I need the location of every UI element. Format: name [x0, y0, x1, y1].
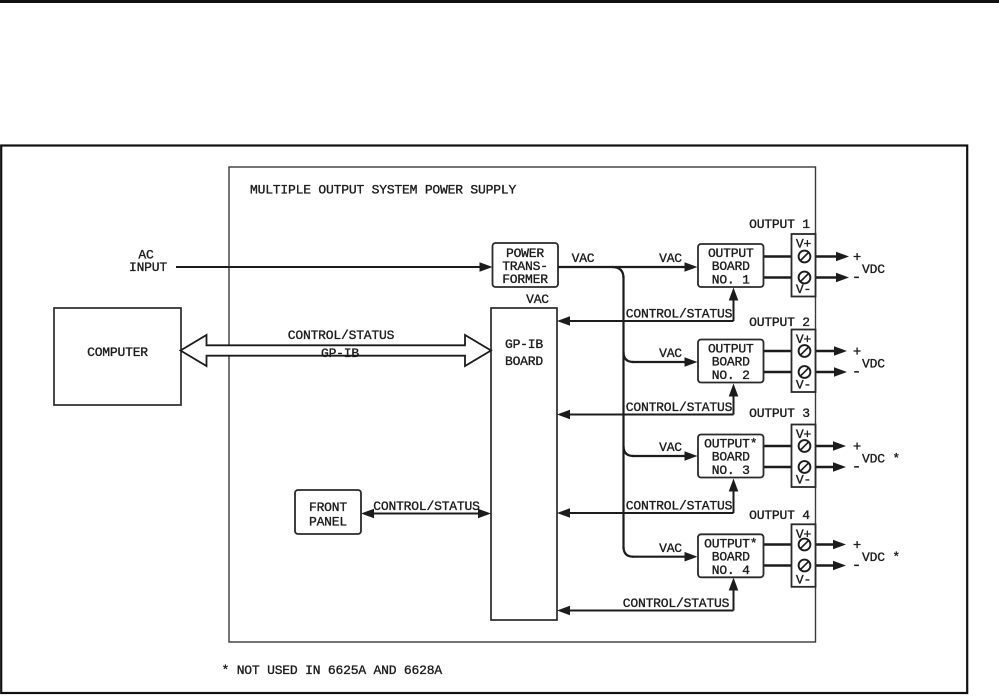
svg-text:OUTPUT 2: OUTPUT 2 — [749, 315, 810, 330]
svg-text:VAC: VAC — [659, 251, 682, 266]
svg-text:V-: V- — [796, 473, 811, 488]
svg-text:VAC: VAC — [526, 292, 549, 307]
svg-text:V-: V- — [796, 572, 811, 587]
svg-text:VDC *: VDC * — [862, 550, 900, 565]
svg-text:+: + — [853, 250, 861, 266]
svg-text:INPUT: INPUT — [129, 260, 167, 275]
svg-text:CONTROL/STATUS: CONTROL/STATUS — [288, 328, 395, 343]
svg-text:BOARD: BOARD — [505, 354, 543, 369]
svg-text:VAC: VAC — [659, 440, 682, 455]
svg-text:NO. 4: NO. 4 — [712, 563, 750, 578]
svg-text:OUTPUT 4: OUTPUT 4 — [749, 508, 810, 523]
svg-text:V+: V+ — [796, 237, 812, 252]
svg-text:CONTROL/STATUS: CONTROL/STATUS — [623, 596, 730, 611]
svg-text:VDC *: VDC * — [862, 452, 900, 467]
svg-text:PANEL: PANEL — [309, 515, 347, 530]
svg-text:GP-IB: GP-IB — [505, 337, 543, 352]
svg-text:* NOT USED IN 6625A AND 6628A: * NOT USED IN 6625A AND 6628A — [222, 663, 443, 678]
svg-text:-: - — [852, 557, 861, 575]
svg-text:NO. 2: NO. 2 — [712, 368, 750, 383]
svg-text:VAC: VAC — [659, 541, 682, 556]
svg-text:V-: V- — [796, 378, 811, 393]
svg-text:CONTROL/STATUS: CONTROL/STATUS — [626, 499, 733, 514]
svg-text:-: - — [852, 363, 861, 381]
svg-text:FRONT: FRONT — [309, 500, 347, 515]
svg-text:NO. 1: NO. 1 — [712, 273, 750, 288]
svg-text:+: + — [853, 538, 861, 554]
svg-text:-: - — [852, 269, 861, 287]
svg-text:MULTIPLE OUTPUT SYSTEM POWER S: MULTIPLE OUTPUT SYSTEM POWER SUPPLY — [250, 183, 516, 198]
svg-text:OUTPUT 3: OUTPUT 3 — [749, 406, 810, 421]
svg-text:COMPUTER: COMPUTER — [87, 345, 148, 360]
svg-text:+: + — [853, 344, 861, 360]
svg-text:VAC: VAC — [572, 251, 595, 266]
svg-text:FORMER: FORMER — [502, 272, 548, 287]
svg-text:VDC: VDC — [862, 357, 885, 372]
svg-text:GP-IB: GP-IB — [321, 346, 359, 361]
svg-text:-: - — [852, 458, 861, 476]
svg-text:OUTPUT 1: OUTPUT 1 — [749, 217, 810, 232]
svg-text:VAC: VAC — [659, 346, 682, 361]
svg-text:+: + — [853, 439, 861, 455]
svg-text:VDC: VDC — [862, 262, 885, 277]
svg-text:CONTROL/STATUS: CONTROL/STATUS — [373, 499, 480, 514]
svg-text:CONTROL/STATUS: CONTROL/STATUS — [626, 400, 733, 415]
svg-text:CONTROL/STATUS: CONTROL/STATUS — [626, 307, 733, 322]
svg-text:NO. 3: NO. 3 — [712, 463, 750, 478]
